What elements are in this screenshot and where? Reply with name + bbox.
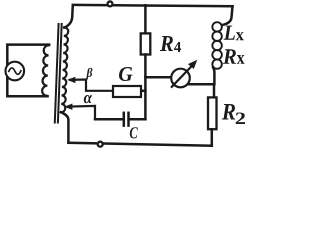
node terminal on top bus — [108, 1, 113, 6]
wire R2 bottom to bottom bus — [211, 129, 214, 146]
wire beta tap to galvanometer box — [141, 90, 145, 93]
wire junction to R2 — [213, 84, 216, 97]
label G text — [119, 67, 133, 81]
transformer T1 core line 2 — [58, 24, 62, 123]
AC source G1 — [6, 62, 25, 81]
AC source sine symbol — [9, 68, 21, 74]
tap alpha arrowhead — [64, 104, 72, 110]
wire detector to right branch — [188, 83, 214, 86]
wire secondary bottom lead — [61, 112, 69, 143]
label C text — [130, 127, 138, 138]
resistor R4 body — [141, 33, 151, 54]
label Lx text — [224, 26, 244, 41]
tap alpha arrow shaft and riser — [68, 106, 95, 119]
wire node column to capacitor right plate — [130, 118, 146, 121]
wire AC source loop — [7, 45, 49, 97]
resistor R2 body — [208, 97, 217, 129]
tap beta arrow shaft and riser — [70, 80, 113, 91]
wire secondary top lead — [64, 5, 73, 27]
transformer T1 primary winding — [42, 45, 49, 96]
wire R4 top stub — [144, 5, 147, 33]
label R2 text — [222, 104, 245, 124]
wire coil bottom to junction — [213, 68, 214, 85]
capacitor C right plate — [127, 113, 130, 126]
wire capacitor left plate to alpha riser — [95, 118, 123, 121]
wire node column to detector — [145, 76, 171, 79]
tap beta arrowhead — [67, 77, 75, 83]
capacitor C left plate — [123, 113, 126, 126]
label Rx text — [223, 49, 245, 64]
label beta text — [86, 68, 92, 80]
detector meter needle — [172, 67, 191, 87]
wire R4 bottom to node column — [144, 55, 147, 120]
label alpha text — [84, 95, 92, 103]
detector meter body — [171, 69, 190, 88]
node terminal on bottom bus — [98, 142, 103, 147]
detector needle arrowhead — [188, 60, 197, 69]
wire bottom bus — [68, 143, 211, 146]
label R4 text — [160, 36, 181, 52]
inductor Lx coil loops — [212, 22, 222, 69]
transformer T1 secondary winding — [61, 27, 69, 112]
transformer T1 core line 1 — [55, 24, 59, 123]
wire top horizontal bus — [73, 5, 233, 6]
wire right drop to Lx coil — [224, 6, 233, 24]
galvanometer box G — [113, 86, 141, 97]
